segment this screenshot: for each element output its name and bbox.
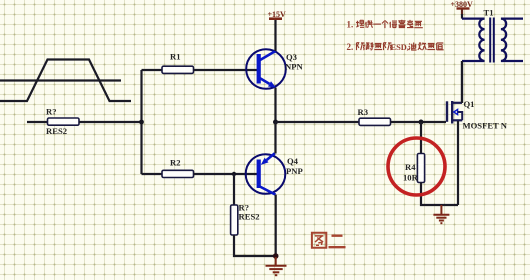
- wire R1 left: [142, 69, 163, 71]
- ground symbol (Q4 branch): [266, 257, 287, 275]
- svg-text:ESD,: ESD,: [391, 43, 409, 52]
- wire RES2 branch lower: [234, 235, 276, 256]
- highlight red circle around R4: [388, 138, 445, 195]
- transistor Q4 emitter stroke: [267, 153, 275, 160]
- transistor Q3 collector stroke: [259, 51, 276, 61]
- resistor R? RES2 (vertical) body: [231, 205, 238, 235]
- svg-text:Q4: Q4: [287, 156, 299, 166]
- resistor R3 body: [359, 118, 391, 125]
- wire R? left: [27, 121, 48, 123]
- waveform trapezoid annotation: [0, 60, 131, 102]
- transformer T1 secondary winding: [501, 19, 523, 61]
- power +380V bar: [457, 7, 470, 9]
- svg-text:2.: 2.: [347, 42, 354, 52]
- mosfet Q1 source stub: [452, 119, 462, 121]
- node junction R2/RES2 branch: [232, 172, 236, 176]
- node junction bus/R?: [139, 120, 144, 125]
- wire R1 to Q3 base: [194, 69, 258, 71]
- svg-text:R2: R2: [170, 158, 181, 168]
- svg-text:RES2: RES2: [239, 212, 260, 222]
- wire Q4 emitter up to node: [274, 122, 276, 154]
- note 1 chinese: 提供一个偏置电压: [356, 20, 423, 28]
- mosfet Q1 body stub: [458, 112, 463, 120]
- transistor Q4 emitter arrow: [261, 158, 269, 165]
- waveform mid level line: [0, 79, 121, 81]
- mosfet Q1 body arrow: [454, 109, 458, 114]
- transistor Q3 emitter arrow: [268, 81, 276, 87]
- wire R3 to gate: [391, 121, 447, 123]
- wire primary bottom to drain: [461, 61, 463, 103]
- svg-text:Q1: Q1: [464, 99, 475, 109]
- transistor Q3 base bar: [257, 54, 261, 84]
- mosfet Q1 channel bar: [451, 101, 453, 124]
- wire Q1 drain up to transformer primary: [461, 61, 463, 103]
- svg-text:T1: T1: [484, 7, 494, 17]
- transistor Q3 circle: [246, 49, 286, 89]
- wire +380V to transformer primary: [461, 14, 463, 19]
- resistor R1 body: [162, 66, 194, 73]
- svg-text:MOSFET N: MOSFET N: [463, 121, 508, 131]
- caption 图二 (red): [312, 233, 346, 248]
- wire R4 bottom: [421, 183, 458, 206]
- node junction R3/R4: [419, 120, 424, 125]
- resistor R2 body: [162, 170, 194, 177]
- note 2 chinese tail: 泄放电阻: [409, 42, 444, 50]
- note 2 chinese: 防静电防 ESD, 泄放电阻: [357, 43, 392, 50]
- wire vertical bus left: [140, 70, 142, 174]
- svg-text:10R: 10R: [403, 173, 419, 183]
- wire Q3 collector to +15V: [274, 20, 276, 51]
- transformer T1 core: [490, 18, 494, 63]
- svg-text:RES2: RES2: [46, 126, 67, 136]
- svg-text:R1: R1: [170, 52, 181, 62]
- svg-text:+15V: +15V: [268, 10, 287, 19]
- transistor Q4 circle: [246, 154, 286, 194]
- resistor R4 body: [417, 154, 424, 183]
- svg-text:R4: R4: [405, 162, 416, 172]
- resistor R? (horizontal) body: [48, 118, 80, 125]
- node junction emitters/R3: [273, 120, 278, 125]
- svg-text:Q3: Q3: [286, 52, 297, 62]
- wire RES2 branch upper: [233, 174, 235, 205]
- node junction ground: [273, 253, 279, 259]
- svg-text:PNP: PNP: [286, 166, 303, 176]
- mosfet Q1 gate bar: [446, 101, 448, 122]
- transformer T1 primary winding: [462, 19, 485, 61]
- wire Q4 collector down: [275, 195, 277, 256]
- power +380V stub: [461, 10, 463, 16]
- transistor Q3 emitter stroke: [259, 78, 270, 84]
- wire R4 top: [420, 122, 422, 154]
- mosfet Q1 drain stub: [452, 102, 462, 104]
- wire R2 to Q4 base: [194, 173, 258, 175]
- power +15V bar: [269, 17, 282, 20]
- wire R2 left: [142, 173, 163, 175]
- svg-text:R?: R?: [46, 107, 57, 117]
- wire node to R3: [276, 121, 360, 123]
- wire Q3 emitter down: [274, 88, 276, 123]
- transistor Q4 collector stroke: [259, 186, 276, 195]
- ground symbol (source branch): [433, 205, 449, 223]
- svg-text:R3: R3: [358, 107, 369, 117]
- wire Q1 source down: [457, 121, 459, 205]
- svg-text:NPN: NPN: [285, 62, 303, 72]
- transistor Q4 base bar: [257, 160, 261, 189]
- wire R? right to bus: [79, 121, 142, 123]
- svg-text:1.: 1.: [347, 20, 354, 30]
